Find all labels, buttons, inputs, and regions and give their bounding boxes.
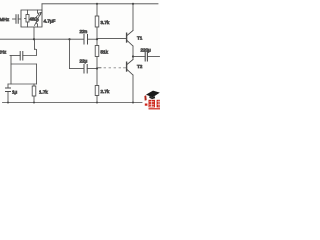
wire: output to right edge — [147, 56, 159, 58]
junction: C5 at ground — [7, 102, 9, 104]
wire node D to T2 base — [97, 67, 101, 69]
resistor R3 51k (lower bias) — [95, 39, 99, 68]
wire cap to tank — [18, 18, 21, 20]
watermark red characters — [149, 100, 156, 108]
svg-text:20MHz: 20MHz — [0, 17, 10, 23]
variable inductor L1 (right branch of tank, arrow) — [35, 10, 42, 27]
tank loop rectangle — [21, 10, 42, 27]
junction: T2 emitter at ground — [132, 102, 134, 104]
capacitor C6 220p (output coupling) — [145, 52, 147, 61]
capacitor C1 (series input) — [16, 15, 18, 23]
svg-text:2.7k: 2.7k — [101, 89, 110, 94]
svg-text:3.7k: 3.7k — [101, 20, 110, 25]
svg-text:1.7k: 1.7k — [39, 90, 48, 95]
svg-text:22n: 22n — [80, 29, 88, 34]
node C — [96, 38, 98, 40]
svg-text:51k: 51k — [101, 50, 109, 55]
capacitor C4 (series on kHz input) — [20, 52, 23, 61]
svg-text:455kHz: 455kHz — [0, 50, 7, 56]
wire cap to node D — [87, 68, 97, 70]
resistor R1 48ohm (left branch of tank) — [25, 10, 30, 27]
wire from kHz label — [10, 55, 20, 57]
junction: T1 collector at rail — [132, 3, 134, 5]
wire node C to T1 base — [97, 38, 127, 40]
junction: rail to R2 — [96, 3, 98, 5]
wire: node B drop to lower net — [69, 39, 71, 68]
node A — [33, 38, 35, 40]
resistor R2 3.7k (upper bias) — [95, 4, 99, 39]
transistor T1 — [127, 4, 133, 57]
capacitor C3 22p (series, lower middle) — [84, 65, 87, 74]
svg-text:22μ: 22μ — [80, 59, 88, 64]
wire: vertical x=37 down — [36, 64, 38, 84]
svg-text:220μ: 220μ — [141, 48, 152, 53]
node E — [132, 55, 134, 57]
capacitor C2 22n (series, upper middle) — [84, 35, 88, 45]
svg-text:T2: T2 — [137, 64, 143, 69]
wire: long horizontal net at y=39 from left edge — [0, 38, 84, 40]
junction: R5 at ground — [33, 102, 35, 104]
junction: R4 at ground — [96, 102, 98, 104]
watermark logo (bottom right): black graduation cap — [144, 91, 160, 110]
svg-text:4.7μF: 4.7μF — [44, 19, 56, 24]
wire: horizontal y=84 — [8, 83, 37, 85]
transistor T2 — [127, 57, 133, 103]
node B — [68, 38, 70, 40]
wire: tank bottom stub to node A — [33, 27, 35, 39]
node D — [96, 67, 98, 69]
svg-text:T1: T1 — [137, 36, 143, 41]
resistor R4 2.7k (emitter/bottom) — [95, 69, 99, 103]
svg-text:1μ: 1μ — [12, 90, 18, 95]
top supply rail — [42, 3, 158, 5]
wire cap to column, corner up to node A column — [23, 39, 37, 55]
resistor R5 1.7k (bottom left, to ground) — [32, 84, 36, 103]
wire: lower net horizontal — [70, 68, 85, 70]
capacitor C5 1u (bottom left, to ground) — [6, 84, 11, 103]
wire: rail corner into tank — [41, 4, 43, 10]
wire from 20MHz — [13, 18, 17, 20]
wire cap to node C — [88, 38, 98, 40]
ground rail — [3, 102, 143, 104]
wire: output line — [133, 56, 145, 58]
wire: tap vertical at x=11 — [10, 56, 12, 85]
wire: horizontal link y=63.5 — [11, 63, 37, 65]
